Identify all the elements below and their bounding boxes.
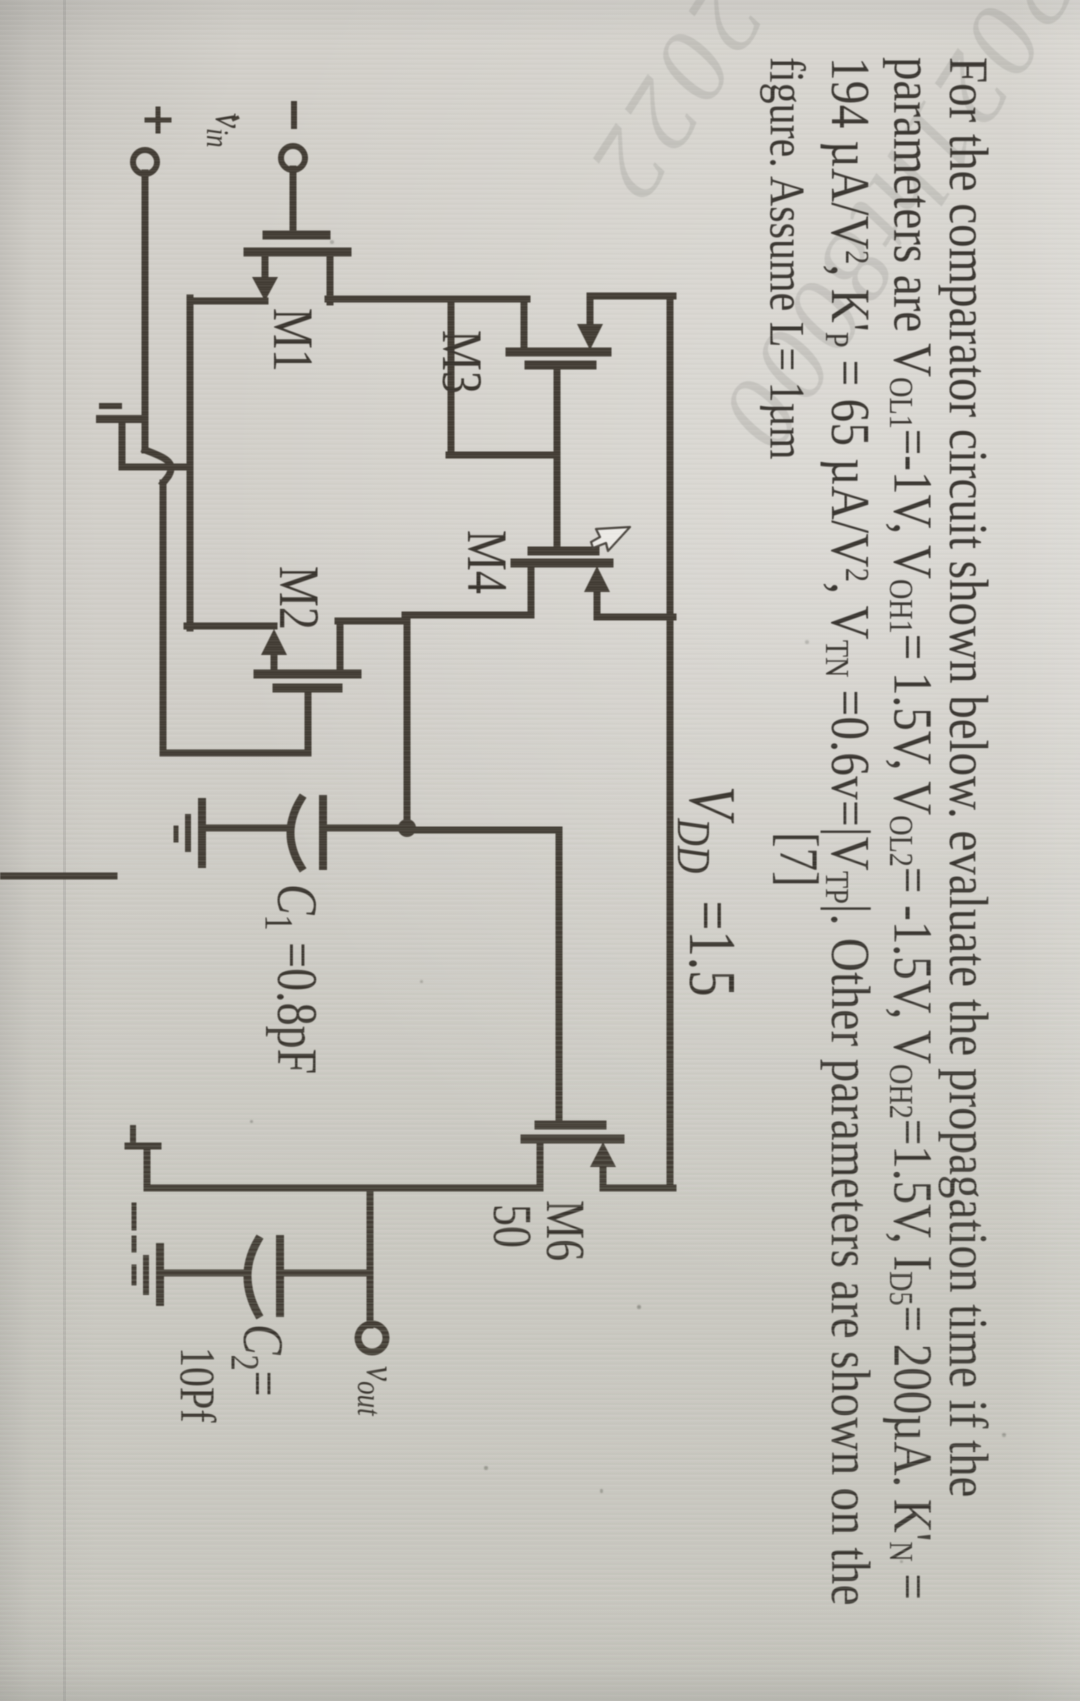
wire M1 drain stub [327, 254, 334, 302]
wire common source bottom run [187, 298, 194, 628]
wire M1 source drop [190, 298, 265, 305]
capacitor C1 [204, 799, 407, 867]
wire VDD rail left drop to M3 source [590, 296, 673, 324]
node dot first-stage output [398, 819, 416, 837]
partial M7 stub bottom [128, 1128, 158, 1250]
wire Vout branch [367, 1188, 374, 1325]
wire M2 source rise [187, 623, 274, 630]
transistor M1 [248, 169, 347, 301]
terminal Vin- circle [281, 146, 305, 170]
wire M2 gate drop to +input line [163, 750, 308, 757]
wire tail drop [122, 422, 190, 467]
capacitor C2 [162, 1239, 370, 1314]
mouse cursor [591, 527, 630, 551]
ground tail (sideways) [100, 406, 138, 419]
wire to M6 gate [405, 830, 559, 1122]
transistor M6 [525, 1125, 620, 1188]
ground C2 [134, 1247, 160, 1302]
wire diode-connect horizontal [448, 299, 455, 455]
transistor M3 [510, 299, 607, 365]
transistor M4 [405, 551, 673, 617]
terminal Vin+ circle [133, 150, 157, 174]
wire VSS fragment bottom edge [0, 873, 114, 880]
wire M1/M3 drain vertical [328, 296, 527, 303]
minus sign [291, 104, 297, 126]
wire first-stage output line [404, 615, 411, 828]
plus sign [147, 109, 169, 131]
terminal Vout circle [358, 1324, 386, 1352]
wire +input run with hop [142, 173, 149, 450]
wire Vout vertical [147, 1148, 540, 1188]
wire diode-connect riser [449, 452, 557, 459]
wire VDD rail right drop to M6 source [603, 1185, 673, 1192]
wire gate line M3-M4 [554, 367, 561, 549]
watermark 2021ht8000 [695, 0, 1080, 473]
wire M2 drain rise [338, 618, 407, 625]
watermark 2022 fragment [563, 0, 792, 224]
wire VDD rail [667, 296, 674, 1188]
prime tick on vin [232, 117, 239, 120]
ground C1 [176, 802, 202, 864]
transistor M2 [258, 623, 357, 753]
